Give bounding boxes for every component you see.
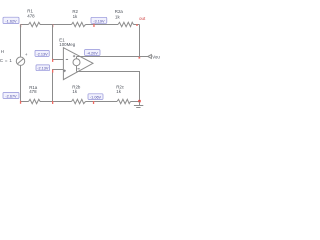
wire plus input — [53, 70, 64, 102]
wire R2 to node n2 and on to R2a — [86, 24, 119, 26]
node marker ground junction — [138, 100, 140, 102]
svg-text:478: 478 — [27, 13, 35, 18]
svg-text:Vout: Vout — [152, 55, 160, 60]
svg-text:-2.13V: -2.13V — [37, 52, 49, 56]
wire junction to R2 — [53, 24, 72, 26]
wire top rail left: source to R1 — [21, 24, 29, 26]
svg-text:-3.19V: -3.19V — [93, 19, 105, 23]
wire junction to R2b — [53, 101, 72, 103]
output wire from VCVS to Vout — [77, 56, 148, 58]
voltage label -2.13V plus input — [36, 65, 50, 71]
svg-text:H: H — [1, 49, 4, 54]
op-amp U1 triangle — [63, 48, 93, 80]
resistor R1 — [29, 22, 42, 26]
svg-text:100Meg: 100Meg — [59, 42, 75, 47]
voltage label -2.13V minus input — [35, 50, 49, 56]
svg-text:-4.20V: -4.20V — [87, 52, 99, 56]
wire bottom rail source to R1a — [21, 101, 29, 103]
resistor R2 — [72, 22, 86, 26]
resistor R1a — [29, 99, 42, 103]
plus sign input — [63, 70, 66, 73]
wire R2b to node n4 and on to R2c — [86, 101, 118, 103]
node marker n2 — [93, 24, 94, 27]
svg-text:-2.67V: -2.67V — [5, 95, 17, 99]
ground — [134, 102, 143, 108]
node marker source top — [20, 24, 21, 27]
node marker minus junction — [52, 24, 53, 27]
svg-text:1k: 1k — [116, 89, 121, 94]
voltage source V — [16, 25, 28, 102]
node marker plus input corner — [52, 70, 53, 73]
wire R2c to ground junction — [131, 101, 140, 103]
resistor R2a — [118, 22, 134, 26]
svg-text:R2a: R2a — [115, 9, 124, 14]
ground return wire from VCVS minus — [77, 72, 140, 102]
node marker plus junction bottom — [52, 101, 53, 104]
node marker output junction — [139, 57, 141, 59]
resistor R2c — [117, 99, 131, 103]
node marker n4 — [93, 101, 94, 104]
voltage label -1.06V n4 — [88, 94, 103, 100]
svg-text:C = 1: C = 1 — [0, 58, 12, 63]
wire minus input vertical — [53, 25, 64, 60]
VCVS plus sign — [73, 55, 75, 57]
wire R1a to plus junction — [42, 101, 53, 103]
svg-text:-1.06V: -1.06V — [90, 96, 102, 100]
node marker out corner — [136, 24, 138, 25]
node marker minus input corner — [52, 59, 53, 62]
port Vout — [148, 55, 152, 59]
minus sign input — [66, 58, 68, 60]
voltage label -3.19V — [91, 17, 107, 23]
svg-text:1k: 1k — [72, 89, 77, 94]
VCVS circle inside op-amp — [73, 59, 80, 66]
wire R2a to out corner — [134, 24, 140, 26]
VCVS minus terminal stub — [76, 66, 78, 72]
svg-text:1k: 1k — [115, 15, 120, 20]
svg-text:out: out — [139, 16, 146, 21]
wire out corner down to output — [139, 25, 141, 57]
svg-text:-2.13V: -2.13V — [37, 67, 49, 71]
svg-text:+: + — [25, 52, 28, 57]
voltage label -1.62V — [3, 17, 19, 23]
svg-text:-1.62V: -1.62V — [5, 19, 17, 23]
VCVS minus sign — [78, 68, 80, 70]
VCVS plus terminal stub — [76, 57, 78, 59]
node marker source bottom — [20, 101, 21, 104]
voltage label -2.67V source bottom — [3, 93, 19, 99]
wire R1 to minus-input junction — [42, 24, 53, 26]
resistor R2b — [72, 99, 86, 103]
svg-text:1k: 1k — [73, 14, 78, 19]
voltage label -4.20V output — [85, 50, 101, 56]
svg-text:478: 478 — [29, 89, 37, 94]
